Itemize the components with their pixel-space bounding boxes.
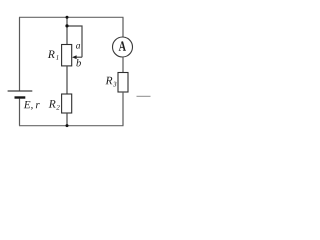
dash mark <box>137 95 151 97</box>
node junction top <box>66 16 69 19</box>
battery E,r long plate <box>8 90 33 92</box>
node junction tap <box>65 24 68 27</box>
ammeter U body <box>113 37 133 57</box>
resistor R2 body <box>62 94 72 113</box>
wire R3 to bottom corner <box>122 92 124 126</box>
label a <box>76 44 80 49</box>
wire bottom horizontal <box>19 125 124 127</box>
battery E,r short thick plate <box>15 96 26 98</box>
label R3 <box>105 77 116 87</box>
node junction bottom <box>66 124 69 127</box>
wire top horizontal <box>19 16 124 18</box>
wire between R1 and R2 <box>66 66 68 94</box>
wire left vertical lower <box>19 99 21 126</box>
wire left vertical upper <box>19 17 21 91</box>
resistor R1 body (rheostat track) <box>62 45 72 66</box>
resistor R3 body <box>118 73 128 93</box>
label b <box>76 59 81 66</box>
wire middle branch bottom <box>66 113 68 126</box>
wire middle branch top <box>66 17 68 44</box>
wire rheostat tap loop <box>67 26 82 57</box>
ammeter label A <box>119 41 126 50</box>
label R1 <box>48 51 59 60</box>
wiper arrow shaft <box>75 56 82 58</box>
wire ammeter to R3 <box>122 57 124 73</box>
battery label E,r <box>24 101 40 110</box>
wiper arrow head <box>72 55 77 59</box>
wire right vertical top to ammeter <box>122 17 124 37</box>
label R2 <box>49 100 60 110</box>
